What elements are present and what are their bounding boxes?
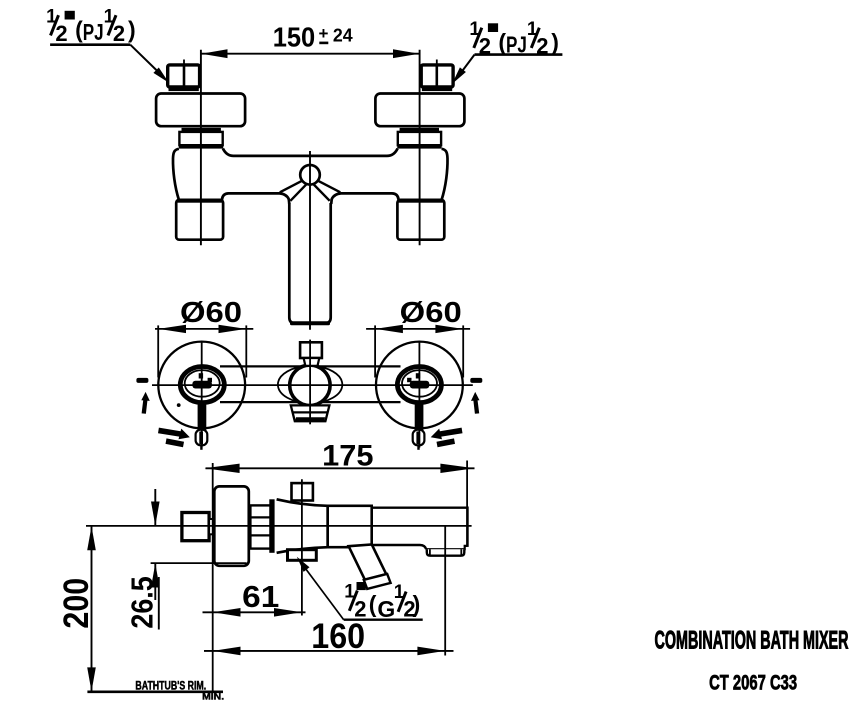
right up arrow mark	[471, 392, 480, 414]
right trumpet profile	[442, 149, 448, 200]
spout pipe (top view)	[289, 203, 330, 323]
spout underside at tip	[426, 546, 467, 549]
right handle bezel ring	[397, 367, 441, 403]
left nut facet line	[183, 65, 186, 87]
right cap bar tab	[407, 378, 411, 382]
right escutcheon circle	[376, 342, 463, 429]
left eccentric union flange	[156, 94, 245, 127]
wall stub square	[182, 513, 209, 541]
dimension 61	[203, 611, 306, 613]
dimension 160	[204, 650, 454, 652]
spout tip edge	[466, 507, 469, 547]
right collar bold base	[397, 145, 441, 149]
right cap bar	[410, 381, 430, 389]
crossbar bottom edge right	[331, 193, 398, 204]
dimension 26.5 arrows	[154, 489, 156, 526]
spout pipe bold bottom	[290, 321, 330, 325]
right rotation mark	[431, 428, 463, 448]
left up arrow mark	[141, 392, 150, 414]
diverter knob (front)	[300, 342, 322, 358]
crossbar top edge	[223, 149, 398, 156]
left wall nut	[168, 65, 200, 87]
cone base bold band	[269, 499, 274, 553]
ribbed collar nut	[250, 505, 270, 548]
front view horizontal centerline	[152, 384, 473, 386]
cone bell	[277, 499, 328, 553]
crossbar bottom edge left	[222, 193, 289, 204]
right wall nut	[421, 65, 453, 87]
svg-text:COMBINATION BATH MIXER: COMBINATION BATH MIXER	[655, 626, 849, 654]
right knob centerline stub	[417, 445, 419, 450]
ball joint circle	[300, 165, 320, 185]
wall flange (side)	[214, 486, 249, 565]
sphere base mid line	[293, 411, 328, 413]
left cap bar	[192, 381, 212, 389]
fan line inner left	[290, 184, 307, 201]
svg-text:2: 2	[55, 21, 67, 46]
diverter knob (side)	[292, 483, 313, 500]
left PJ label underline	[50, 43, 130, 46]
left nut centerline stub	[183, 60, 185, 66]
right PJ label underline	[475, 53, 563, 56]
svg-text:+: +	[319, 24, 329, 43]
main barrel	[328, 506, 372, 547]
svg-text:MIN.: MIN.	[202, 691, 224, 701]
right lever knob	[413, 430, 425, 446]
right eccentric union flange	[375, 94, 464, 127]
leader line left PJ label	[130, 45, 163, 77]
center ellipse escutcheon	[278, 366, 342, 403]
left temp dot	[177, 403, 181, 407]
right handle vertical centerline	[418, 341, 420, 448]
svg-text:PJ: PJ	[83, 19, 104, 45]
leader line for G1/2	[300, 561, 344, 620]
svg-text:61: 61	[242, 579, 279, 614]
left handle bezel ring	[180, 367, 224, 403]
arrow left of 150	[201, 49, 227, 58]
26.5 text underline	[158, 577, 160, 630]
right fitting centerline	[419, 50, 421, 245]
right side dash mark	[470, 378, 482, 383]
left knob centerline stub	[200, 445, 202, 450]
G1/2 label underline	[344, 619, 423, 621]
left trumpet profile	[173, 149, 179, 200]
side view centerline	[86, 525, 472, 527]
spout underside reference line	[151, 562, 247, 564]
collar rib 2	[250, 534, 270, 536]
left index square	[199, 373, 203, 378]
wall plane extension line	[212, 463, 214, 692]
dimension line 150	[201, 53, 420, 55]
svg-text:2: 2	[113, 21, 125, 46]
diverter extension line	[301, 479, 303, 615]
right lower block bold top	[398, 199, 444, 202]
right nut base band	[422, 86, 452, 91]
left handle vertical centerline	[201, 341, 203, 448]
label 1/2"(PJ 1/2) right	[469, 19, 559, 59]
right index square	[416, 373, 420, 378]
outlet inner tick right	[460, 549, 462, 555]
outlet extension line	[444, 527, 446, 656]
sphere base trapezoid	[291, 405, 330, 421]
outlet inner tick left	[429, 549, 431, 555]
left lever knob core	[199, 432, 203, 445]
valve body bar bottom line	[220, 401, 401, 403]
left nut base band	[169, 86, 199, 91]
right handle inner ring	[402, 370, 437, 397]
left escutcheon circle	[158, 342, 245, 429]
svg-text:150: 150	[273, 22, 316, 53]
right collar	[398, 132, 441, 145]
svg-text:24: 24	[333, 25, 353, 46]
svg-text:Ø60: Ø60	[400, 297, 462, 329]
dimension 175	[206, 467, 475, 469]
leader line right PJ label	[457, 55, 475, 78]
left rotation mark	[158, 428, 190, 448]
spout pipe centerline	[309, 151, 311, 330]
svg-text:160: 160	[311, 616, 365, 656]
valve body bar top line	[220, 365, 401, 367]
left lower block bold top	[177, 199, 223, 202]
dimension lines Ø60 right	[366, 328, 470, 330]
hand shower elbow end cap	[364, 574, 391, 589]
left side dash mark	[136, 378, 148, 383]
dimension lines Ø60 left	[155, 328, 253, 330]
outlet mouth	[427, 549, 465, 556]
left cap bar tab	[208, 378, 212, 382]
svg-text:): )	[128, 17, 136, 43]
left handle inner ring	[185, 370, 220, 397]
right neck band below flange	[400, 128, 439, 132]
svg-text:(: (	[369, 591, 377, 617]
left lever knob	[196, 430, 208, 446]
svg-text:2: 2	[354, 596, 366, 621]
svg-text:): )	[413, 591, 421, 617]
right nut facet line	[435, 65, 438, 87]
spout tip extension line	[466, 461, 468, 508]
center vertical centerline	[309, 340, 311, 425]
spout underside with step	[372, 545, 427, 549]
right lower block	[397, 200, 444, 240]
svg-text:200: 200	[57, 578, 96, 629]
hand shower elbow pipe	[349, 545, 387, 580]
diverter sphere	[290, 365, 330, 405]
label 1/2"(PJ 1/2) left	[46, 6, 136, 46]
svg-text:26.5: 26.5	[125, 576, 160, 628]
left lever stem	[198, 404, 207, 434]
stub neck	[209, 519, 214, 534]
left neck band below flange	[182, 128, 221, 132]
dimension 200	[91, 526, 93, 692]
spout tube top line	[372, 507, 468, 509]
fan line inner right	[313, 184, 330, 201]
fan line far right	[318, 181, 340, 193]
right nut centerline stub	[436, 60, 438, 66]
left fitting centerline	[200, 50, 202, 245]
left collar	[179, 132, 222, 145]
sphere base bold foot	[295, 417, 325, 421]
left lower block	[176, 200, 223, 240]
fan line far left	[280, 181, 302, 193]
right lever stem	[415, 404, 424, 434]
collar rib 1	[250, 516, 270, 518]
svg-text:G: G	[377, 596, 395, 622]
bathtub rim line	[87, 690, 223, 693]
svg-text:Ø60: Ø60	[180, 297, 242, 329]
right lever knob core	[416, 432, 420, 445]
left collar bold base	[179, 145, 223, 149]
label 1/2"(G 1/2)	[344, 582, 420, 622]
arrow right of 150	[393, 49, 419, 58]
svg-text:CT 2067 C33: CT 2067 C33	[709, 670, 797, 694]
svg-text:BATHTUB'S RIM.: BATHTUB'S RIM.	[135, 680, 206, 692]
housing under cone	[288, 550, 317, 561]
diverter knob neck	[304, 358, 320, 366]
svg-text:175: 175	[322, 440, 373, 473]
